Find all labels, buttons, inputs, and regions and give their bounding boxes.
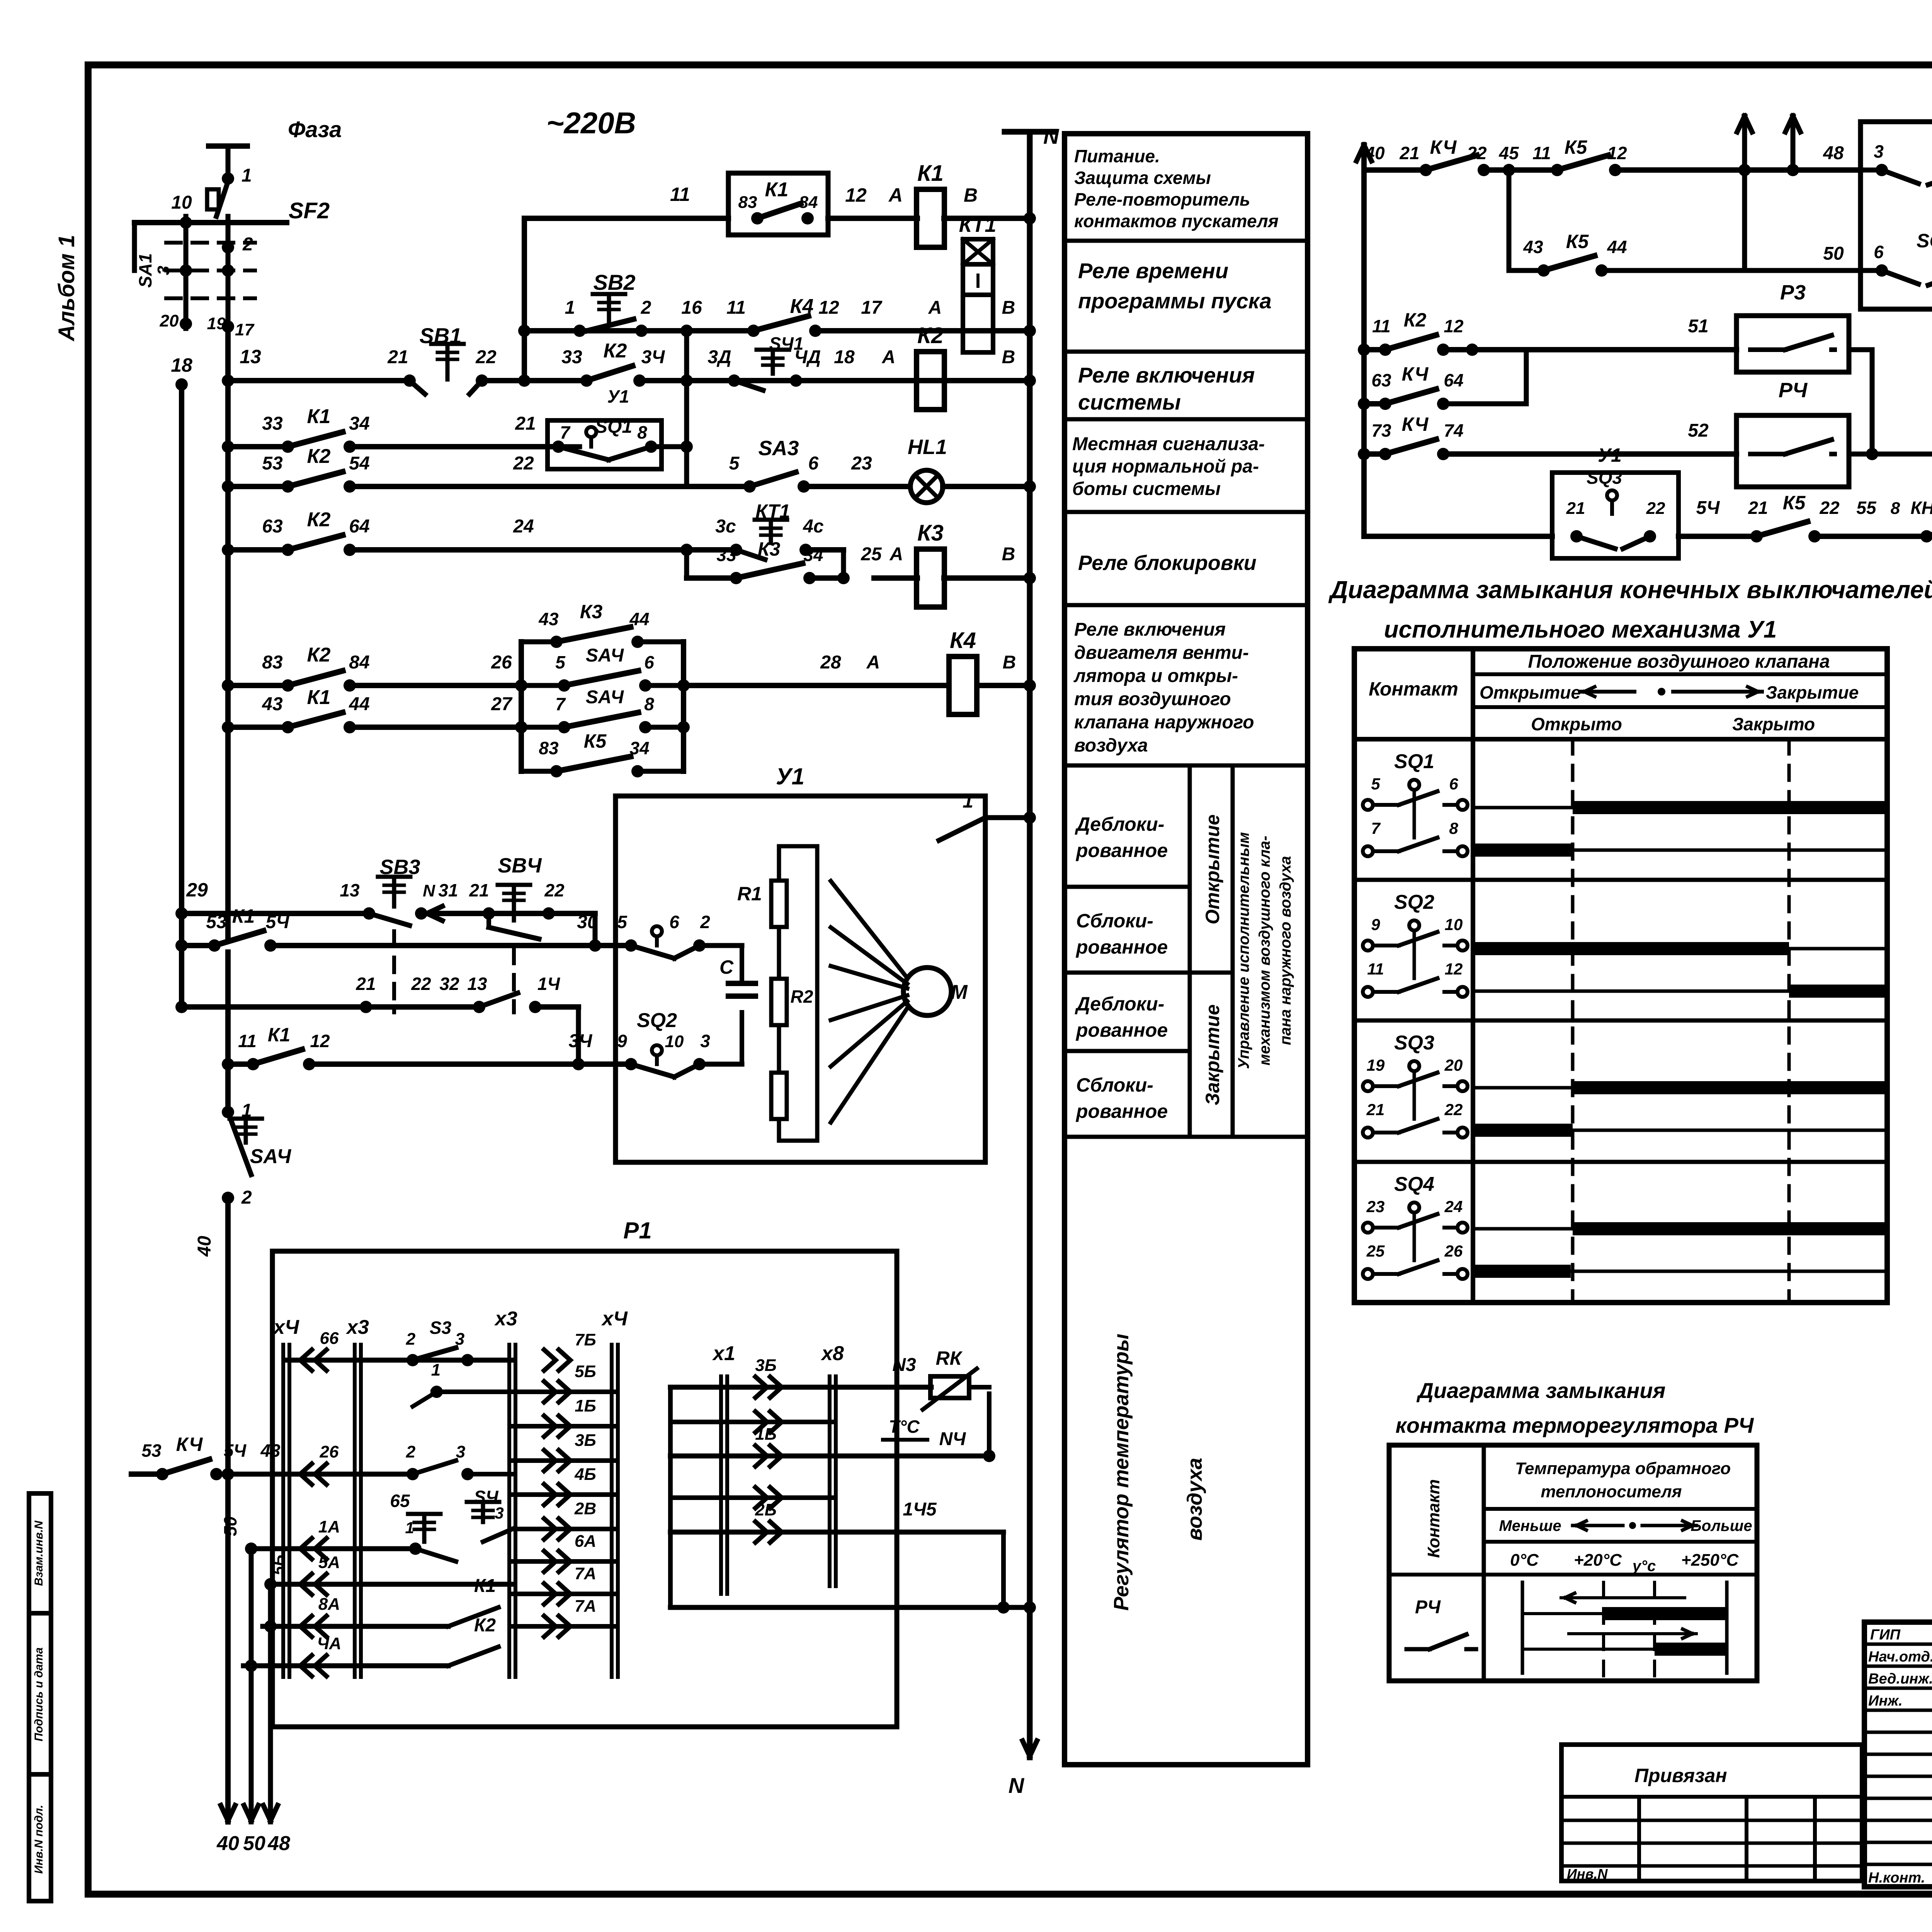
svg-text:SQ3: SQ3 — [1587, 468, 1622, 488]
svg-text:6: 6 — [669, 912, 679, 932]
contact K2 63-64 — [292, 546, 346, 554]
svg-text:SЧ1: SЧ1 — [769, 333, 804, 354]
svg-text:7А: 7А — [575, 1597, 596, 1616]
svg-text:Больше: Больше — [1690, 1517, 1752, 1534]
svg-text:2: 2 — [406, 1330, 416, 1349]
thermostat P4 box — [1736, 379, 1849, 487]
svg-text:43: 43 — [262, 694, 283, 714]
wire top rung U2 — [1364, 136, 1861, 170]
contact K3 43-44 — [521, 601, 684, 648]
svg-text:40: 40 — [216, 1832, 239, 1855]
wire stub 8A contact K1 — [263, 1576, 512, 1637]
svg-text:55: 55 — [1856, 498, 1877, 518]
relay coil K4 — [949, 656, 977, 714]
svg-text:1: 1 — [963, 790, 973, 812]
svg-text:Нач.отд.: Нач.отд. — [1868, 1649, 1932, 1665]
svg-text:6А: 6А — [575, 1532, 596, 1551]
svg-text:Питание.: Питание. — [1074, 146, 1160, 166]
svg-text:У1: У1 — [776, 764, 804, 789]
title block sign texts — [1868, 1627, 1932, 1886]
wire bottom rung KN1 — [1364, 492, 1932, 536]
svg-text:8: 8 — [637, 422, 647, 442]
function table texts — [1072, 146, 1294, 1611]
svg-text:64: 64 — [1444, 370, 1463, 390]
svg-text:44: 44 — [349, 694, 369, 714]
title P4 diagram — [1396, 1378, 1754, 1437]
svg-text:К2: К2 — [307, 509, 331, 531]
svg-text:13: 13 — [240, 346, 261, 367]
svg-text:1Ч: 1Ч — [537, 974, 561, 994]
svg-text:механизмом воздушного кла-: механизмом воздушного кла- — [1256, 836, 1273, 1066]
svg-text:К2: К2 — [917, 323, 944, 348]
switch SA4 main — [194, 1100, 291, 1822]
svg-text:Фаза: Фаза — [288, 117, 342, 142]
svg-text:84: 84 — [349, 652, 369, 673]
svg-text:Инв.N: Инв.N — [1567, 1866, 1608, 1882]
svg-text:К3: К3 — [580, 601, 603, 622]
svg-text:19: 19 — [1367, 1056, 1385, 1074]
svg-text:системы: системы — [1078, 390, 1181, 414]
svg-text:48: 48 — [1823, 143, 1844, 163]
connector X3 right — [507, 1345, 511, 1677]
wire P1 right row N3 — [670, 1355, 931, 1398]
svg-text:К2: К2 — [474, 1615, 496, 1636]
svg-text:23: 23 — [851, 453, 872, 474]
svg-text:К1: К1 — [307, 405, 331, 428]
svg-text:22: 22 — [1819, 498, 1840, 518]
svg-text:33: 33 — [262, 413, 283, 434]
svg-text:У1: У1 — [1598, 444, 1622, 466]
wire X1 feeder vertical — [668, 1387, 673, 1607]
svg-text:9: 9 — [1371, 915, 1380, 934]
title block sign grid — [1864, 1622, 1932, 1887]
wire rung 30 SQ1 — [175, 905, 631, 952]
thermostat P3 box — [1736, 281, 1849, 372]
svg-text:воздуха: воздуха — [1074, 735, 1148, 756]
svg-text:11: 11 — [1532, 143, 1551, 163]
svg-text:Закрытие: Закрытие — [1766, 682, 1859, 702]
switch SA3 — [743, 472, 810, 493]
wire stub 1A — [251, 1517, 456, 1561]
svg-text:двигателя венти-: двигателя венти- — [1074, 643, 1249, 663]
svg-text:К1: К1 — [268, 1024, 291, 1046]
svg-text:51: 51 — [1688, 316, 1708, 337]
svg-text:26: 26 — [491, 652, 512, 673]
svg-text:7А: 7А — [575, 1564, 596, 1583]
svg-text:Реле блокировки: Реле блокировки — [1078, 551, 1257, 575]
svg-text:N: N — [423, 881, 435, 900]
svg-text:Положение воздушного клапана: Положение воздушного клапана — [1528, 651, 1830, 672]
svg-text:А: А — [889, 544, 903, 565]
node Фаза — [209, 117, 342, 186]
svg-text:22: 22 — [1646, 499, 1665, 518]
svg-text:73: 73 — [1371, 420, 1391, 440]
svg-text:Инв.N подл.: Инв.N подл. — [32, 1805, 45, 1874]
svg-text:теплоносителя: теплоносителя — [1541, 1482, 1682, 1501]
svg-text:В: В — [1002, 544, 1015, 565]
svg-text:Р3: Р3 — [1780, 281, 1806, 304]
contact K2 53-54 — [292, 483, 346, 490]
svg-text:SАЧ: SАЧ — [586, 645, 624, 666]
svg-text:25: 25 — [1366, 1242, 1385, 1260]
svg-text:R1: R1 — [737, 883, 762, 905]
wire feeder vertical — [522, 218, 527, 381]
svg-text:SQ2: SQ2 — [637, 1009, 677, 1032]
contact KT1 3c-4c — [730, 520, 812, 560]
svg-text:24: 24 — [513, 516, 534, 537]
svg-text:11: 11 — [1367, 960, 1384, 978]
contact K4 21-22 — [1430, 166, 1480, 174]
wire rung P3 — [1358, 309, 1736, 356]
svg-text:83: 83 — [539, 738, 559, 758]
svg-text:2: 2 — [241, 1187, 252, 1208]
svg-text:Открытие: Открытие — [1202, 815, 1223, 925]
svg-text:Деблоки-: Деблоки- — [1075, 993, 1164, 1015]
svg-text:44: 44 — [629, 609, 649, 629]
svg-text:13: 13 — [340, 880, 360, 900]
wire P1 row2 dots — [413, 1360, 512, 1406]
relay coil K1 — [917, 189, 944, 247]
wire P1 right row N4 — [670, 1387, 995, 1466]
svg-text:контакта терморегулятора РЧ: контакта терморегулятора РЧ — [1396, 1413, 1754, 1437]
svg-text:К5: К5 — [584, 730, 607, 752]
svg-text:33: 33 — [561, 347, 582, 367]
SQ3 closure bars — [1473, 1081, 1887, 1137]
lamp HL1 — [908, 435, 947, 503]
svg-text:11: 11 — [1372, 316, 1391, 336]
svg-text:х8: х8 — [820, 1342, 844, 1365]
contact K4 73-74 — [1389, 450, 1439, 458]
time relay KT1 winding — [959, 213, 997, 352]
pushbutton SB3 — [363, 855, 427, 925]
svg-text:20: 20 — [1444, 1056, 1463, 1074]
svg-text:Закрыто: Закрыто — [1732, 714, 1815, 734]
limit switch SQ1 box — [548, 417, 687, 469]
svg-text:1: 1 — [241, 165, 252, 186]
svg-text:1А: 1А — [318, 1517, 340, 1536]
svg-text:45: 45 — [1498, 143, 1519, 163]
svg-text:2: 2 — [641, 298, 651, 318]
svg-text:пана наружного воздуха: пана наружного воздуха — [1277, 856, 1294, 1045]
svg-text:Меньше: Меньше — [1499, 1517, 1561, 1534]
svg-text:КЧ: КЧ — [1402, 413, 1429, 435]
svg-text:рованное: рованное — [1075, 1100, 1168, 1122]
svg-text:5Б: 5Б — [575, 1362, 596, 1381]
svg-text:SA3: SA3 — [758, 437, 799, 460]
svg-text:4Б: 4Б — [574, 1465, 596, 1484]
svg-text:5: 5 — [617, 912, 628, 932]
limit switch SQ1 in U2 — [1861, 124, 1932, 185]
capacitor C — [719, 956, 755, 1012]
svg-text:40: 40 — [194, 1236, 215, 1257]
svg-text:3Б: 3Б — [755, 1356, 777, 1375]
svg-text:SQ2: SQ2 — [1917, 230, 1932, 252]
wire rung K2 — [222, 340, 1036, 406]
svg-text:63: 63 — [1371, 370, 1391, 390]
svg-text:В: В — [1002, 347, 1015, 367]
contact S5 in P1 — [390, 1491, 440, 1555]
svg-text:26: 26 — [1444, 1242, 1463, 1260]
wire branch 43 K5 44 — [1503, 164, 1861, 277]
wire junction dots — [518, 374, 693, 387]
wire rung K3 — [222, 500, 1036, 584]
connector X4 left — [281, 1345, 285, 1677]
svg-text:Открыто: Открыто — [1531, 714, 1622, 734]
svg-text:контактов пускателя: контактов пускателя — [1074, 211, 1279, 231]
svg-text:1: 1 — [405, 1519, 414, 1537]
motor M in U1 — [831, 881, 968, 1122]
svg-text:К1: К1 — [307, 686, 331, 709]
svg-text:SQ2: SQ2 — [1394, 891, 1434, 913]
svg-text:хЧ: хЧ — [272, 1316, 299, 1338]
svg-text:11: 11 — [238, 1031, 257, 1051]
svg-text:+250°С: +250°С — [1681, 1551, 1739, 1570]
svg-text:Защита схемы: Защита схемы — [1074, 168, 1211, 188]
svg-text:24: 24 — [1444, 1197, 1463, 1216]
svg-text:2Б: 2Б — [755, 1500, 777, 1519]
svg-text:50: 50 — [220, 1516, 240, 1536]
svg-text:М: М — [951, 981, 968, 1003]
svg-text:В: В — [964, 184, 978, 206]
svg-text:43: 43 — [1523, 237, 1543, 257]
svg-text:3: 3 — [456, 1442, 465, 1461]
attachment table — [1561, 1745, 1862, 1882]
svg-text:К5: К5 — [1566, 231, 1589, 252]
SQ diagram dashed guides — [1573, 739, 1789, 1303]
contact K5 21-22 — [1760, 532, 1811, 540]
bus 18 secondary — [171, 354, 192, 1007]
svg-text:К2: К2 — [307, 644, 331, 666]
svg-text:5А: 5А — [318, 1553, 340, 1572]
pushbutton SB4 — [483, 854, 555, 939]
wire rung P4 — [1358, 413, 1736, 460]
regulator P1 box — [272, 1218, 897, 1727]
wire P1 row 66 — [286, 1318, 615, 1371]
svg-text:Привязан: Привязан — [1634, 1765, 1727, 1786]
SQ2 closure bars — [1473, 942, 1887, 998]
svg-text:Диаграмма замыкания: Диаграмма замыкания — [1417, 1378, 1666, 1403]
svg-text:S3: S3 — [430, 1318, 452, 1338]
svg-text:11: 11 — [726, 298, 746, 318]
wire P1 right row 2 — [670, 1412, 833, 1432]
wire P3 out to P4 rung — [1849, 350, 1878, 460]
contact K1 11-12 — [257, 1060, 305, 1068]
svg-text:3: 3 — [455, 1330, 464, 1349]
svg-text:В: В — [1003, 652, 1016, 673]
svg-text:3: 3 — [700, 1031, 710, 1051]
contact K4 63-64 — [1389, 400, 1439, 408]
wire to SA3 line — [680, 440, 693, 453]
svg-text:16: 16 — [681, 298, 702, 318]
wire SB4 down to rung30 — [589, 913, 601, 952]
svg-text:N: N — [1043, 124, 1060, 148]
svg-text:34: 34 — [803, 545, 823, 565]
svg-text:Открытие: Открытие — [1480, 682, 1581, 702]
svg-text:SB2: SB2 — [594, 270, 636, 294]
svg-text:HL1: HL1 — [908, 435, 947, 459]
wire top bus — [134, 220, 287, 225]
limit switch SQ1 in U1 — [625, 912, 742, 958]
wire SA4 group rails — [515, 642, 690, 771]
P4 diagram table — [1389, 1445, 1757, 1681]
wire to K4 coil — [684, 652, 1036, 692]
wire U1 terminal 1 to N — [939, 790, 1036, 840]
svg-text:21: 21 — [469, 880, 489, 900]
svg-text:х3: х3 — [345, 1316, 369, 1338]
contact K2 83-84 — [292, 682, 346, 689]
wire stub 4A contact K2 — [243, 1615, 498, 1676]
svg-text:рованное: рованное — [1075, 1019, 1168, 1041]
svg-text:х3: х3 — [494, 1308, 517, 1330]
svg-text:Реле включения: Реле включения — [1074, 619, 1226, 640]
limit switch SQ3 box U1 — [1552, 444, 1679, 558]
svg-text:Реле включения: Реле включения — [1078, 363, 1255, 387]
svg-text:У1: У1 — [607, 386, 629, 406]
mechanical link dashed — [394, 931, 514, 1012]
svg-text:8: 8 — [644, 694, 654, 714]
connector X1 — [719, 1376, 723, 1594]
resistor R3 — [771, 1051, 787, 1141]
wire P4 to K5 coil — [1849, 420, 1932, 460]
pushbutton SB2 — [573, 270, 648, 337]
wire rung K1 — [524, 184, 1036, 224]
svg-text:К1: К1 — [474, 1576, 496, 1596]
svg-text:5Ч: 5Ч — [1696, 498, 1720, 518]
contact K3 33-34 branch — [680, 538, 850, 584]
svg-text:6: 6 — [644, 652, 654, 672]
pushbutton SB1 — [403, 323, 488, 394]
svg-text:22: 22 — [544, 880, 565, 900]
svg-text:лятора и откры-: лятора и откры- — [1073, 666, 1238, 686]
svg-text:12: 12 — [845, 184, 867, 206]
svg-text:63: 63 — [262, 516, 283, 537]
svg-text:22: 22 — [513, 453, 534, 474]
svg-text:12: 12 — [1444, 316, 1464, 336]
svg-text:6: 6 — [1874, 242, 1884, 262]
wire rung SQ2 — [222, 1024, 631, 1070]
circuit breaker SF2 — [207, 182, 330, 255]
svg-text:SA1: SA1 — [135, 253, 155, 287]
wire cap net vertical — [740, 946, 744, 1064]
wire return to N — [670, 1601, 1036, 1614]
limit switch SQ2 in U2 — [1861, 230, 1932, 285]
module A1 box — [728, 173, 828, 235]
svg-text:17: 17 — [861, 298, 883, 318]
svg-text:83: 83 — [262, 652, 283, 673]
svg-text:А: А — [888, 184, 903, 206]
svg-text:К4: К4 — [950, 628, 976, 653]
wire K4 feed row — [131, 1434, 512, 1485]
svg-text:КЧ: КЧ — [1402, 363, 1429, 385]
thermistor RK — [883, 1347, 977, 1440]
wire rung 43 K1 44 — [222, 686, 527, 733]
svg-text:1: 1 — [431, 1361, 440, 1379]
svg-text:Контакт: Контакт — [1424, 1479, 1443, 1558]
SQ diagram table — [1354, 649, 1887, 1303]
svg-text:9: 9 — [617, 1031, 627, 1051]
svg-text:SQ1: SQ1 — [1394, 750, 1434, 773]
svg-text:10: 10 — [665, 1032, 684, 1051]
svg-text:ГИП: ГИП — [1870, 1627, 1901, 1643]
svg-text:5Ч: 5Ч — [224, 1440, 247, 1461]
svg-text:К2: К2 — [307, 445, 331, 468]
svg-text:10: 10 — [171, 192, 192, 213]
svg-text:48: 48 — [267, 1832, 290, 1855]
svg-text:7: 7 — [555, 694, 566, 714]
resistor R1 — [737, 846, 787, 954]
svg-text:К1: К1 — [917, 161, 944, 186]
svg-text:21: 21 — [1566, 499, 1585, 518]
svg-text:Контакт: Контакт — [1369, 678, 1458, 700]
bus left rising arrow — [1357, 145, 1372, 536]
relay coil K2 — [917, 352, 944, 410]
svg-text:83: 83 — [738, 193, 757, 212]
svg-text:~220В: ~220В — [546, 106, 636, 140]
wire rung SB3 SB4 — [175, 879, 595, 921]
svg-text:SАЧ: SАЧ — [250, 1145, 292, 1168]
contact K2 11-12 — [1389, 346, 1439, 354]
svg-text:Реле-повторитель: Реле-повторитель — [1074, 189, 1250, 209]
contact K1 83-84 in A1 — [738, 179, 818, 224]
svg-text:I: I — [975, 269, 981, 293]
svg-text:65: 65 — [390, 1491, 410, 1511]
contact KN1 8-4 — [1930, 532, 1932, 540]
svg-text:хЧ: хЧ — [601, 1308, 628, 1330]
switch SA4 5-6 — [521, 645, 684, 692]
svg-text:7: 7 — [560, 422, 571, 442]
svg-text:74: 74 — [1444, 420, 1463, 440]
svg-text:21: 21 — [1399, 143, 1419, 163]
wire bus 40 arrow — [216, 1805, 239, 1855]
svg-text:РЧ: РЧ — [1779, 379, 1808, 402]
svg-text:13: 13 — [467, 974, 487, 994]
svg-text:22: 22 — [475, 347, 497, 367]
svg-text:0°С: 0°С — [1510, 1551, 1539, 1570]
svg-text:3Д: 3Д — [707, 347, 731, 367]
svg-text:3Б: 3Б — [575, 1431, 596, 1450]
svg-text:2В: 2В — [574, 1499, 596, 1518]
svg-text:17: 17 — [235, 320, 255, 339]
title block outline — [1864, 1622, 1932, 1887]
svg-text:27: 27 — [491, 694, 513, 714]
svg-text:53: 53 — [262, 453, 283, 474]
svg-text:22: 22 — [411, 974, 431, 994]
svg-text:у°с: у°с — [1632, 1558, 1656, 1575]
svg-text:32: 32 — [439, 974, 459, 994]
svg-text:N3: N3 — [892, 1355, 916, 1375]
svg-text:12: 12 — [818, 298, 839, 318]
svg-text:Закрытие: Закрытие — [1202, 1004, 1223, 1105]
svg-text:21: 21 — [515, 413, 536, 434]
relay coil K3 — [917, 549, 944, 607]
wire rung 21-14 middle — [175, 974, 578, 1064]
svg-text:3Ч: 3Ч — [569, 1031, 593, 1051]
svg-text:1Ч5: 1Ч5 — [903, 1499, 937, 1520]
svg-text:1Б: 1Б — [755, 1425, 777, 1444]
svg-text:53: 53 — [141, 1440, 162, 1461]
svg-text:исполнительного механизма У1: исполнительного механизма У1 — [1384, 616, 1777, 643]
svg-text:РЧ: РЧ — [1415, 1597, 1441, 1617]
svg-text:SQ1: SQ1 — [595, 417, 632, 437]
left margin stamp cells — [29, 1493, 51, 1901]
svg-text:1Б: 1Б — [575, 1396, 596, 1415]
svg-text:2: 2 — [406, 1442, 416, 1461]
svg-text:43: 43 — [538, 609, 559, 629]
svg-text:8: 8 — [1891, 499, 1900, 518]
svg-text:31: 31 — [438, 880, 458, 900]
contact K5 11-12 — [1561, 166, 1611, 174]
svg-text:Вед.инж.: Вед.инж. — [1868, 1671, 1932, 1687]
